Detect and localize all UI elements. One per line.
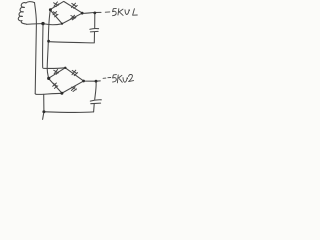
diode D24 bbox=[71, 87, 76, 92]
glyph K bbox=[117, 75, 122, 83]
dash bbox=[105, 11, 110, 13]
glyph 2 bbox=[129, 74, 134, 81]
glyph V bbox=[125, 10, 130, 15]
capacitor C2 top lead bbox=[95, 82, 96, 99]
bridge 2 arm T-R bbox=[65, 68, 83, 81]
wire D5 tail bbox=[43, 113, 44, 119]
bridge 1 right vertex node bbox=[81, 12, 84, 15]
capacitor C2 bottom lead bbox=[93, 104, 96, 112]
wire D2 to C1 bottom bbox=[50, 32, 95, 43]
diode D21 bbox=[54, 70, 59, 75]
diode D11 bbox=[54, 2, 59, 7]
glyph 5 bbox=[113, 8, 117, 15]
node D3 bbox=[93, 12, 96, 15]
bridge 2 arm L-B bbox=[49, 79, 62, 93]
bridge 2 arm B-R bbox=[62, 81, 83, 93]
bridge 2 left vertex node bbox=[47, 77, 50, 80]
wire bridge-2 right vertex to output 2 bbox=[85, 80, 100, 82]
node D1 bbox=[41, 22, 44, 25]
wire C2 bottom to node D5 bbox=[45, 111, 93, 114]
node D4 bbox=[95, 80, 98, 83]
bridge 1 arm T-R bbox=[64, 2, 82, 13]
wire bridge-1 right vertex to output 1 bbox=[84, 12, 101, 13]
glyph K bbox=[118, 9, 123, 16]
dash bbox=[108, 77, 111, 79]
wire D1 to bridge-1 bottom vertex bbox=[45, 23, 62, 26]
wire A corner to bridge-2 bottom vertex bbox=[35, 93, 62, 94]
glyph 5 bbox=[113, 75, 117, 82]
dash bbox=[103, 77, 106, 79]
bridge 2 right vertex node bbox=[82, 80, 85, 83]
transformer coil L1 bbox=[18, 2, 34, 24]
wire coil top to vertical A bbox=[35, 3, 37, 94]
label -5KV2 bbox=[103, 74, 134, 82]
wire vertical B: D1 down then right to bridge-2 top vertex bbox=[43, 25, 66, 68]
capacitor C2 plates bbox=[90, 100, 101, 101]
diode D23 bbox=[53, 83, 58, 88]
capacitor C1 top lead bbox=[94, 14, 96, 29]
bridge 1 arm L-B bbox=[51, 11, 62, 24]
label -5KVL bbox=[105, 8, 137, 15]
bridge 1 arm L-T bbox=[51, 1, 64, 9]
capacitor C1 plates bbox=[90, 27, 99, 30]
node D2 bbox=[47, 40, 50, 43]
wire D5 riser to bottom wire bbox=[43, 94, 45, 110]
wire vertical C: bridge-1 left vertex down to bridge-2 left vertex bbox=[47, 10, 50, 78]
bridge 2 arm L-T bbox=[49, 68, 65, 78]
bridge 2 bottom vertex node bbox=[60, 92, 63, 95]
glyph L bbox=[133, 9, 138, 16]
glyph V bbox=[123, 78, 128, 83]
bridge 1 left vertex node bbox=[49, 8, 52, 11]
wire coil bottom to node D1 bbox=[27, 23, 42, 26]
bridge 1 bottom vertex node bbox=[61, 23, 63, 25]
paper background bbox=[0, 0, 160, 120]
node D5 bbox=[42, 110, 45, 113]
bridge 2 top vertex node bbox=[64, 67, 66, 69]
diode D13 bbox=[53, 12, 58, 17]
bridge 1 arm B-R bbox=[62, 13, 82, 23]
diode D12 bbox=[72, 3, 78, 8]
diode D14 bbox=[71, 15, 76, 20]
diode D22 bbox=[72, 70, 78, 75]
